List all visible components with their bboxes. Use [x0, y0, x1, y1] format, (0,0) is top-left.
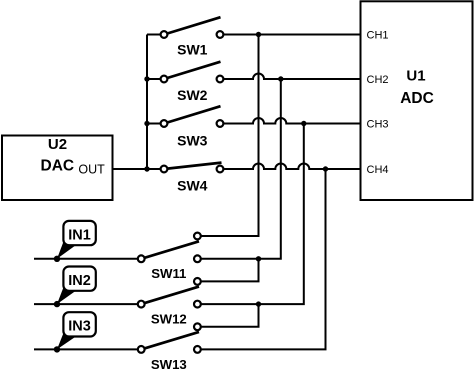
wire input IN1 to SW11 common [34, 258, 139, 260]
svg-text:SW12: SW12 [151, 312, 187, 327]
switch SW11 upper throw terminal [194, 233, 201, 240]
wire bus stub to SW2 [147, 78, 161, 80]
switch SW3 blade [164, 106, 221, 123]
junction CH2 drop [278, 76, 283, 81]
switch SW11 common terminal [138, 255, 145, 262]
switch SW1 right terminal [217, 31, 224, 38]
switch SW3 left terminal [161, 120, 168, 127]
switch SW2 blade [164, 62, 221, 79]
wire SW4 to CH4 with hops [223, 164, 360, 170]
flag IN1 pointer [57, 242, 76, 258]
svg-text:CH2: CH2 [367, 74, 389, 86]
switch SW13 upper throw terminal [194, 323, 201, 330]
switch SW11 blade [141, 241, 199, 258]
wire SW1 to CH1 [223, 34, 360, 36]
flag IN2 pointer [57, 288, 76, 304]
svg-text:SW13: SW13 [151, 357, 187, 370]
wire SW12 upper throw link [201, 259, 259, 282]
switch SW2 right terminal [217, 76, 224, 83]
wire left bus vertical [146, 35, 148, 170]
switch SW4 left terminal [161, 166, 168, 173]
junction SW12 lower row [256, 301, 261, 306]
svg-text:U1: U1 [406, 67, 425, 84]
junction bus-SW2 [144, 76, 149, 81]
wire drop CH3 to SW12 lower throw [201, 124, 304, 305]
node IN1 attach dot [54, 256, 60, 262]
node IN3 attach dot [54, 346, 60, 352]
wire input IN3 to SW13 common [34, 348, 139, 350]
switch SW12 blade [141, 287, 199, 305]
switch SW13 blade [141, 332, 199, 350]
switch SW13 common terminal [138, 346, 145, 353]
flag IN1 box [63, 221, 95, 245]
node IN2 attach dot [54, 301, 60, 307]
switch SW12 lower throw terminal [194, 301, 201, 308]
wire bus stub to SW3 [147, 123, 161, 125]
svg-text:SW1: SW1 [177, 42, 208, 58]
svg-text:DAC: DAC [41, 157, 75, 174]
junction bus-OUT [144, 166, 149, 171]
wire drop CH4 to SW13 lower throw [201, 169, 326, 349]
switch SW12 upper throw terminal [194, 278, 201, 285]
switch SW1 blade [164, 17, 221, 34]
switch SW4 right terminal [217, 166, 224, 173]
svg-text:U2: U2 [48, 136, 67, 153]
junction bus-SW3 [144, 121, 149, 126]
flag IN3 pointer [57, 334, 76, 350]
svg-text:IN1: IN1 [68, 227, 91, 243]
switch SW12 common terminal [138, 301, 145, 308]
svg-text:SW4: SW4 [177, 178, 208, 194]
junction CH3 drop [301, 121, 306, 126]
wire SW3 to CH3 with hops [223, 118, 360, 124]
svg-text:SW11: SW11 [151, 266, 186, 281]
svg-text:SW3: SW3 [177, 132, 208, 148]
wire DAC OUT to SW4 [113, 168, 161, 170]
switch SW3 right terminal [217, 120, 224, 127]
svg-text:ADC: ADC [400, 90, 434, 107]
switch SW13 lower throw terminal [194, 346, 201, 353]
wire drop CH2 to SW11 lower throw [201, 79, 281, 259]
junction CH4 drop [323, 166, 328, 171]
junction SW11 lower row [256, 256, 261, 261]
svg-text:CH3: CH3 [367, 119, 389, 131]
svg-text:SW2: SW2 [177, 87, 208, 103]
svg-text:CH1: CH1 [367, 30, 389, 42]
IC U2 DAC box [2, 136, 113, 201]
wire drop CH1 to SW11 upper throw [201, 35, 259, 237]
wire bus stub to SW1 [147, 34, 161, 36]
switch SW2 left terminal [161, 76, 168, 83]
junction CH1 drop [256, 32, 261, 37]
switch SW4 blade [164, 163, 222, 169]
switch SW11 lower throw terminal [194, 255, 201, 262]
wire SW13 upper throw link [201, 304, 259, 327]
wire input IN2 to SW12 common [34, 303, 139, 305]
svg-text:OUT: OUT [78, 163, 105, 177]
wire SW2 to CH2 with hop [223, 74, 360, 80]
flag IN2 box [63, 267, 95, 291]
IC U1 ADC box [361, 1, 473, 200]
svg-text:IN3: IN3 [68, 319, 91, 335]
flag IN3 box [63, 312, 95, 336]
svg-text:IN2: IN2 [68, 273, 91, 289]
switch SW1 left terminal [161, 31, 168, 38]
svg-text:CH4: CH4 [367, 164, 389, 176]
